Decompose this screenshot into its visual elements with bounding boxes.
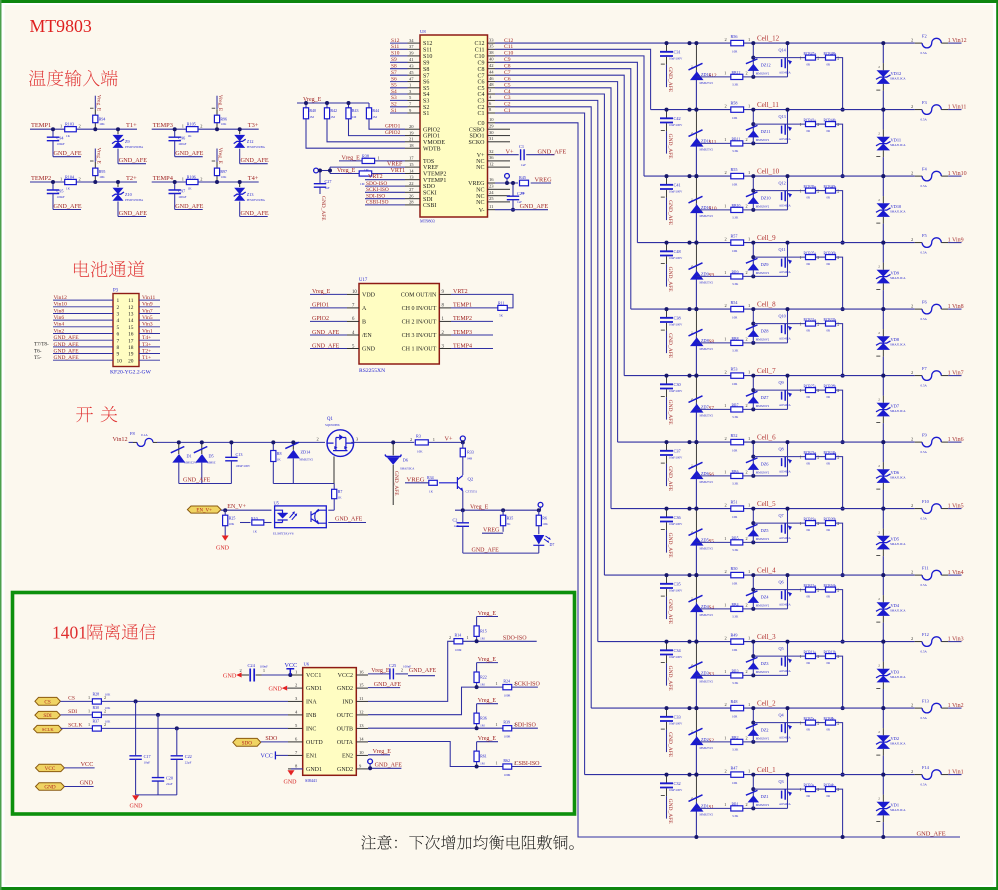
svg-text:0.5A: 0.5A [921, 251, 928, 255]
pin 16 wire Vin1 [128, 332, 160, 338]
wire [941, 375, 948, 377]
svg-text:GND_AFE: GND_AFE [54, 335, 80, 341]
wire [611, 508, 915, 510]
svg-text:100R: 100R [504, 735, 511, 739]
svg-text:2: 2 [878, 464, 880, 468]
svg-text:R47: R47 [731, 765, 738, 770]
junction [841, 706, 845, 710]
wire [752, 442, 754, 476]
wire [53, 299, 113, 301]
svg-text:13: 13 [409, 175, 414, 180]
pin NC 12 [476, 161, 495, 171]
svg-text:0R: 0R [827, 129, 831, 133]
svg-text:CSBI-ISO: CSBI-ISO [515, 761, 541, 767]
wire [695, 110, 697, 137]
svg-text:CS: CS [68, 696, 75, 702]
svg-text:2: 2 [691, 596, 693, 600]
svg-text:11: 11 [489, 204, 494, 209]
svg-text:10nF/100V: 10nF/100V [669, 322, 683, 326]
junction [694, 835, 698, 839]
wire [666, 788, 668, 796]
wire [836, 789, 843, 837]
svg-text:12: 12 [489, 161, 494, 166]
junction [177, 440, 181, 444]
zener DZ6 [746, 442, 770, 476]
wire [882, 642, 884, 662]
junction [694, 507, 698, 511]
wire [661, 63, 665, 65]
wire [752, 575, 754, 609]
svg-text:CH 0 IN/OUT: CH 0 IN/OUT [402, 306, 437, 312]
junction [881, 374, 885, 378]
svg-text:T3+: T3+ [248, 122, 259, 129]
svg-text:32: 32 [489, 149, 494, 154]
wire [405, 179, 420, 181]
junction [841, 640, 845, 644]
svg-text:Vin12: Vin12 [113, 436, 128, 443]
svg-text:C5: C5 [477, 86, 484, 92]
pin SDO1 30 [469, 130, 495, 140]
svg-text:C9: C9 [477, 60, 484, 66]
wire [428, 441, 463, 443]
svg-text:AO3401A: AO3401A [779, 338, 791, 341]
wire [328, 509, 334, 511]
svg-text:RCB31a: RCB31a [804, 318, 817, 322]
wire [175, 156, 203, 158]
zener DZ1 [746, 775, 770, 809]
capacitor C32 [660, 775, 683, 819]
svg-text:C42: C42 [674, 116, 681, 121]
svg-text:1: 1 [748, 170, 750, 175]
junction [751, 255, 755, 259]
wire [836, 191, 843, 243]
wire [392, 442, 394, 455]
svg-text:2: 2 [725, 303, 727, 308]
wire [882, 329, 884, 336]
zener ZD6 [689, 462, 714, 484]
wire [787, 43, 789, 77]
resistor RB11 [724, 137, 747, 153]
svg-text:C10: C10 [474, 54, 484, 60]
zener ZD8 [689, 329, 714, 351]
svg-text:VRT2: VRT2 [368, 174, 383, 180]
junction [786, 706, 790, 710]
wire [264, 522, 272, 524]
svg-text:2: 2 [725, 769, 727, 774]
resistor R45 [519, 175, 529, 195]
resistor RCB27a [800, 384, 820, 399]
svg-text:C25: C25 [389, 663, 397, 668]
svg-text:T5-: T5- [34, 355, 42, 361]
svg-text:2: 2 [911, 38, 913, 43]
junction [173, 127, 177, 131]
svg-text:T4+: T4+ [248, 175, 259, 182]
svg-text:C31: C31 [674, 49, 681, 54]
svg-text:MMSZ5V2: MMSZ5V2 [700, 547, 714, 551]
wire [882, 416, 884, 423]
wire [666, 65, 668, 88]
svg-text:Vreg_E: Vreg_E [95, 148, 101, 165]
wire [661, 662, 665, 664]
pin 17 wire T4+ [128, 338, 160, 344]
svg-text:5K: 5K [499, 314, 504, 318]
pin OUTA 14 [337, 737, 368, 747]
capacitor C20 [152, 715, 173, 795]
svg-text:R35: R35 [507, 516, 514, 521]
wire [876, 754, 880, 756]
svg-text:C7: C7 [477, 73, 484, 79]
wire [462, 457, 464, 475]
wire [152, 181, 259, 183]
wire [941, 242, 948, 244]
svg-text:S7: S7 [709, 406, 715, 412]
svg-text:S9: S9 [709, 273, 715, 279]
svg-text:2: 2 [691, 330, 693, 334]
svg-text:RB8: RB8 [732, 337, 739, 341]
svg-text:10R: 10R [732, 715, 738, 719]
wire [836, 723, 843, 775]
svg-text:VD5: VD5 [891, 537, 900, 542]
wire [408, 48, 421, 50]
wire [153, 441, 157, 443]
junction [786, 374, 790, 378]
wire [836, 457, 843, 509]
section title 电池通道 [74, 261, 144, 278]
wire [488, 74, 496, 76]
wire [356, 714, 368, 716]
wire [816, 456, 826, 458]
terminal circle V+ [460, 436, 465, 442]
junction [665, 241, 669, 245]
wire [495, 166, 510, 168]
power VCC EN1 [261, 751, 289, 759]
wire [405, 204, 420, 206]
svg-text:F5: F5 [922, 233, 927, 238]
wire [752, 110, 754, 144]
junction [694, 374, 698, 378]
wire GND2 [368, 682, 401, 688]
wire [176, 728, 178, 755]
junction [881, 573, 885, 577]
junction [751, 474, 755, 478]
svg-text:S6: S6 [709, 472, 715, 478]
svg-text:10R: 10R [732, 449, 738, 453]
wire [661, 529, 665, 531]
pin 5 wire Vin4 [53, 325, 120, 331]
pin S11 [390, 44, 432, 53]
wire [129, 441, 133, 443]
TVS VD10 [876, 176, 906, 243]
svg-text:Vreg_E: Vreg_E [373, 749, 392, 755]
svg-text:GND_AFE: GND_AFE [175, 203, 203, 210]
wire [292, 458, 294, 483]
wire [135, 701, 137, 755]
junction [688, 440, 692, 444]
svg-text:C41: C41 [674, 182, 681, 187]
svg-text:0.5A: 0.5A [921, 384, 928, 388]
terminal circle [314, 168, 319, 173]
wire [392, 465, 394, 505]
svg-text:2: 2 [878, 331, 880, 335]
svg-text:F10: F10 [922, 499, 930, 504]
junction [694, 706, 698, 710]
junction [688, 640, 692, 644]
junction [51, 127, 55, 131]
wire [915, 774, 922, 776]
wire [405, 191, 420, 193]
wire [787, 110, 789, 144]
svg-text:S9: S9 [423, 60, 429, 66]
wire [408, 87, 421, 89]
resistor R36 body [474, 713, 487, 728]
resistor RCB39a [800, 185, 820, 200]
fuse F6 [911, 300, 948, 322]
svg-text:R48: R48 [731, 699, 738, 704]
junction [881, 307, 885, 311]
port SDO [233, 738, 261, 746]
wire [408, 42, 421, 44]
junction [665, 108, 669, 112]
wire [695, 642, 697, 669]
wire [538, 510, 540, 515]
wire [661, 396, 665, 398]
wire [696, 475, 730, 477]
fuse F9 [911, 433, 948, 455]
junction [347, 101, 351, 105]
wire [351, 441, 414, 443]
wire [462, 441, 464, 443]
junction [786, 108, 790, 112]
wire [230, 442, 232, 456]
capacitor C2 [453, 510, 470, 553]
wire [157, 781, 159, 795]
wire [666, 43, 668, 51]
junction [291, 440, 295, 444]
junction [688, 706, 692, 710]
svg-text:GND_AFE: GND_AFE [312, 343, 340, 349]
svg-text:VD2: VD2 [891, 736, 900, 741]
wire [306, 119, 405, 148]
svg-text:1: 1 [378, 155, 380, 160]
svg-text:GPIO2: GPIO2 [423, 127, 440, 133]
wire [836, 58, 843, 110]
ground GND_AFE [175, 150, 204, 157]
svg-text:1: 1 [748, 636, 750, 641]
wire [365, 198, 405, 200]
svg-text:DZ5: DZ5 [761, 528, 769, 533]
svg-text:RCB32b: RCB32b [824, 318, 837, 322]
svg-text:RB2: RB2 [732, 736, 739, 740]
wire [882, 616, 884, 623]
wire [53, 313, 113, 315]
svg-text:44: 44 [489, 69, 494, 74]
wire [347, 293, 359, 295]
wire [174, 182, 176, 190]
wire [695, 336, 697, 376]
svg-text:GND_AFE: GND_AFE [119, 157, 147, 164]
svg-text:DZ11: DZ11 [761, 129, 771, 134]
section frame 1401 isolation box [13, 593, 575, 815]
pin 8 wire GND_AFE [53, 345, 120, 351]
svg-text:100R: 100R [455, 648, 462, 652]
svg-text:R52: R52 [731, 433, 738, 438]
wire [288, 754, 303, 756]
svg-text:R24: R24 [503, 679, 510, 684]
svg-text:17: 17 [409, 156, 414, 161]
wire [666, 442, 668, 450]
wire [390, 74, 408, 76]
svg-text:41: 41 [409, 57, 414, 62]
svg-text:0.5A: 0.5A [921, 517, 928, 521]
svg-text:1: 1 [748, 237, 750, 242]
wire [327, 119, 405, 142]
wire [53, 156, 81, 158]
junction [665, 307, 669, 311]
ground GND_AFE [53, 203, 82, 210]
svg-text:22uF: 22uF [166, 782, 173, 786]
wire [526, 154, 554, 156]
wire [368, 103, 370, 108]
junction [475, 685, 479, 689]
svg-text:OUTD: OUTD [306, 740, 323, 746]
zener ZD7 [689, 396, 714, 418]
svg-text:VCC: VCC [45, 766, 56, 772]
junction [694, 174, 698, 178]
svg-text:1: 1 [496, 681, 498, 686]
svg-text:C17: C17 [144, 754, 151, 759]
junction [751, 388, 755, 392]
svg-text:1: 1 [800, 455, 802, 460]
wire [882, 130, 884, 137]
svg-text:S1: S1 [391, 108, 397, 114]
wire [488, 160, 496, 162]
wire [157, 715, 159, 777]
svg-text:MMSZ6V2: MMSZ6V2 [756, 271, 770, 275]
wire [333, 499, 335, 511]
svg-text:0R: 0R [807, 129, 811, 133]
wire [239, 129, 241, 134]
capacitor C33 [660, 708, 683, 752]
junction [665, 773, 669, 777]
wire [743, 674, 788, 676]
wire [390, 106, 408, 108]
svg-text:10R: 10R [732, 50, 738, 54]
svg-text:2: 2 [911, 437, 913, 442]
junction [271, 440, 275, 444]
resistor RB10 [724, 203, 747, 219]
svg-text:0.5A: 0.5A [921, 583, 928, 587]
svg-text:1 Vin2: 1 Vin2 [948, 703, 964, 709]
svg-text:1: 1 [800, 521, 802, 526]
svg-text:1M: 1M [480, 637, 485, 641]
svg-text:MMSZ5V2: MMSZ5V2 [700, 414, 714, 418]
zener ZD4 [689, 595, 714, 617]
svg-text:100R: 100R [504, 773, 511, 777]
svg-text:0R: 0R [827, 794, 831, 798]
svg-text:0R: 0R [807, 395, 811, 399]
wire [538, 526, 540, 534]
svg-text:0R: 0R [827, 262, 831, 266]
fuse F11 [911, 566, 948, 588]
resistor R97 pull-up [212, 149, 227, 183]
zener DZ11 [746, 110, 771, 144]
resistor R3 [410, 434, 435, 454]
svg-text:43: 43 [409, 64, 414, 69]
junction [751, 654, 755, 658]
wire [273, 483, 334, 485]
wire [816, 57, 826, 59]
wire [216, 149, 218, 163]
resistor R58 [725, 100, 751, 120]
svg-text:10nF/100V: 10nF/100V [669, 655, 683, 659]
resistor R34 [427, 475, 437, 494]
svg-text:AO3401A: AO3401A [779, 471, 791, 474]
wire [876, 688, 880, 690]
wire [666, 522, 668, 530]
svg-text:VD3: VD3 [891, 670, 900, 675]
svg-text:T3+: T3+ [142, 342, 151, 348]
svg-text:RB7: RB7 [732, 404, 739, 408]
zener DZ7 [746, 376, 770, 410]
wire [224, 510, 226, 515]
svg-text:0.5A: 0.5A [921, 184, 928, 188]
capacitor C96 [169, 129, 187, 157]
wire [666, 597, 668, 620]
svg-text:VREF: VREF [387, 162, 403, 168]
svg-text:0.1A: 0.1A [141, 433, 148, 437]
wire [666, 530, 668, 553]
svg-text:2: 2 [746, 203, 748, 208]
wire [882, 283, 884, 290]
svg-text:Vreg_E: Vreg_E [217, 95, 223, 112]
wire [948, 175, 961, 177]
svg-text:RCB28b: RCB28b [824, 384, 837, 388]
wire [752, 309, 754, 343]
svg-text:MMSZ6V2: MMSZ6V2 [756, 337, 770, 341]
svg-text:V-: V- [479, 208, 485, 214]
TVS VD2 [876, 708, 906, 775]
svg-text:1K: 1K [277, 458, 282, 462]
wire [488, 61, 496, 63]
net label GND_AFE [408, 668, 437, 676]
wire [118, 216, 146, 218]
pin C0 [477, 117, 495, 127]
wire [661, 462, 665, 464]
wire [201, 463, 203, 484]
junction [841, 507, 845, 511]
pin SDO [405, 181, 436, 190]
svg-text:Q12: Q12 [779, 181, 786, 186]
svg-text:C97: C97 [178, 189, 185, 194]
junction [751, 174, 755, 178]
svg-text:DZ1: DZ1 [761, 794, 769, 799]
wire [118, 163, 146, 165]
svg-text:EN_V+: EN_V+ [227, 504, 246, 510]
svg-text:RB9: RB9 [732, 271, 739, 275]
wire [408, 74, 421, 76]
svg-text:2: 2 [725, 436, 727, 441]
svg-text:10: 10 [352, 290, 357, 295]
wire [117, 201, 119, 216]
svg-text:2: 2 [691, 463, 693, 467]
pin GND1 2 [288, 683, 322, 693]
svg-text:RCB44b: RCB44b [824, 118, 837, 122]
wire [239, 201, 241, 216]
TVS VD8 [876, 309, 906, 376]
svg-text:1: 1 [724, 602, 726, 607]
wire [101, 700, 288, 702]
svg-text:1M: 1M [360, 182, 365, 186]
